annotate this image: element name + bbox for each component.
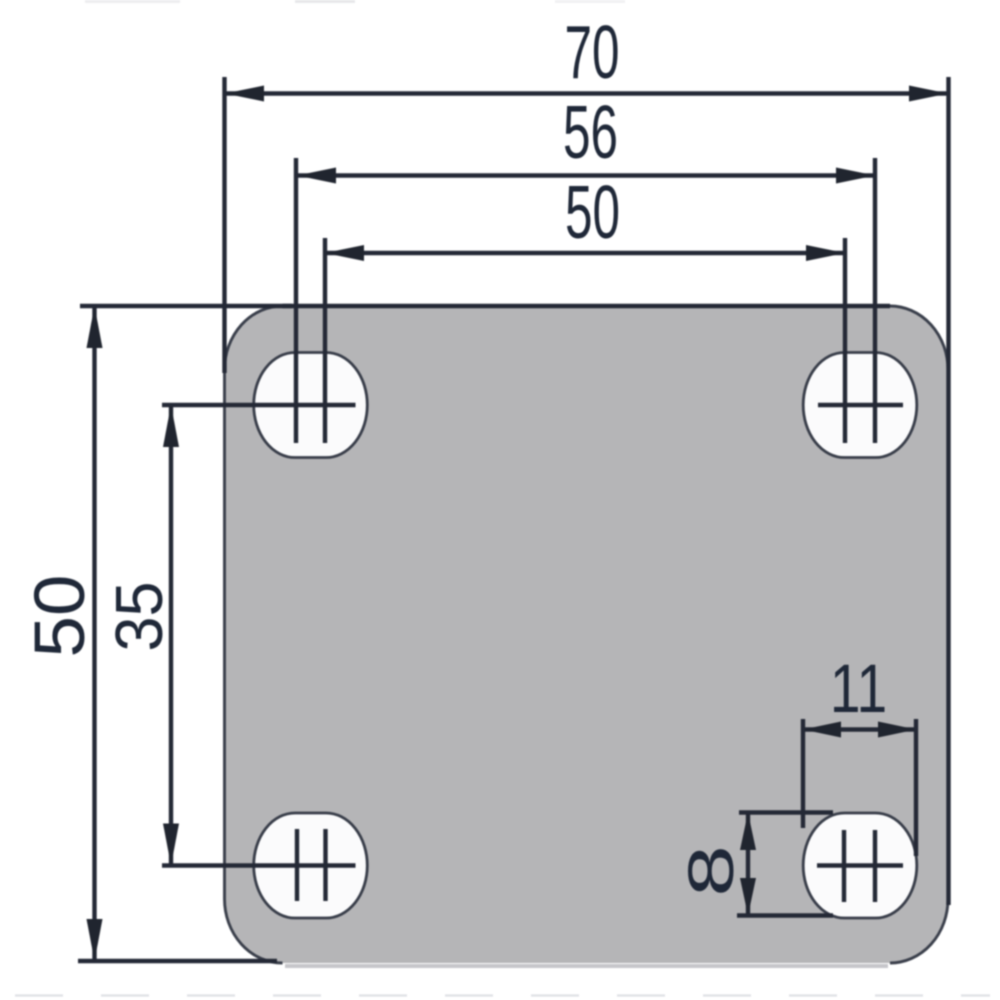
slot hole top-right bbox=[803, 353, 917, 458]
slot hole bottom-left bbox=[254, 813, 368, 918]
faint top-edge artifact marks bbox=[85, 0, 180, 3]
dim 11 left extension bbox=[801, 719, 805, 828]
crosshair vertical outer top-left (ext. for dim 56) bbox=[294, 158, 298, 443]
crosshair verticals bottom-left slot bbox=[295, 829, 299, 901]
bottom artifact dashed line bbox=[15, 994, 990, 996]
crosshair horizontal top-left slot (also ext. for dim 35) bbox=[162, 403, 356, 407]
dimension 8 line bbox=[746, 813, 750, 916]
dim 8 arrow bottom bbox=[740, 878, 756, 916]
svg-text:11: 11 bbox=[830, 650, 887, 727]
dim 70 arrow right bbox=[909, 86, 948, 102]
dim 70 left extension bbox=[222, 77, 226, 373]
crosshair vertical outer top-right (ext. for dim 56) bbox=[873, 158, 877, 443]
svg-text:50: 50 bbox=[565, 171, 620, 255]
dim 70 right extension bbox=[946, 77, 950, 905]
svg-text:70: 70 bbox=[564, 11, 619, 95]
plate bottom soft shadow bbox=[285, 964, 888, 968]
dim 11 arrow left bbox=[803, 722, 841, 738]
slot hole bottom-right bbox=[803, 813, 917, 918]
dim 50 top arrow left bbox=[325, 245, 364, 261]
crosshair horizontal bottom-left slot (also ext. for dim 35) bbox=[162, 863, 356, 867]
dim 8 bottom extension bbox=[737, 913, 833, 917]
dim 50 top arrow right bbox=[806, 245, 845, 261]
plate top edge line bbox=[283, 304, 891, 308]
dim 56 arrow right bbox=[836, 168, 875, 184]
svg-text:50: 50 bbox=[21, 575, 100, 658]
svg-text:8: 8 bbox=[675, 845, 746, 897]
dim 50 left arrow bottom bbox=[87, 919, 103, 961]
crosshair horizontal top-right slot bbox=[818, 403, 903, 407]
dimension 70 line bbox=[225, 91, 949, 95]
dim 8 arrow top bbox=[740, 813, 756, 851]
dim 50 left top extension bbox=[80, 304, 292, 308]
svg-text:35: 35 bbox=[101, 581, 176, 651]
dimension 56 line bbox=[297, 173, 875, 177]
dim 35 arrow bottom bbox=[163, 824, 179, 866]
dim 35 arrow top bbox=[163, 405, 179, 447]
dimension 35 line bbox=[169, 405, 173, 866]
svg-text:56: 56 bbox=[563, 91, 618, 175]
dim 50 left bottom extension bbox=[78, 959, 277, 963]
dim 11 arrow right bbox=[878, 722, 916, 738]
plate body bbox=[225, 306, 949, 963]
dimension 50 top line bbox=[325, 251, 845, 255]
crosshair horizontal bottom-right slot bbox=[817, 863, 903, 867]
dim 8 top extension bbox=[739, 810, 833, 814]
dim 56 arrow left bbox=[297, 168, 336, 184]
dim 70 arrow left bbox=[225, 86, 264, 102]
crosshair verticals bottom-right slot bbox=[842, 830, 846, 902]
dim 11 right extension bbox=[914, 719, 918, 856]
slot hole top-left bbox=[254, 353, 368, 458]
dim 50 left arrow top bbox=[87, 306, 103, 348]
crosshair vertical inner top-left (ext. for dim 50) bbox=[323, 238, 327, 443]
dimension 50 left line bbox=[92, 306, 96, 961]
plate outline bbox=[225, 306, 949, 963]
dimension 11 line bbox=[803, 727, 916, 731]
crosshair vertical inner top-right (ext. for dim 50) bbox=[843, 238, 847, 443]
